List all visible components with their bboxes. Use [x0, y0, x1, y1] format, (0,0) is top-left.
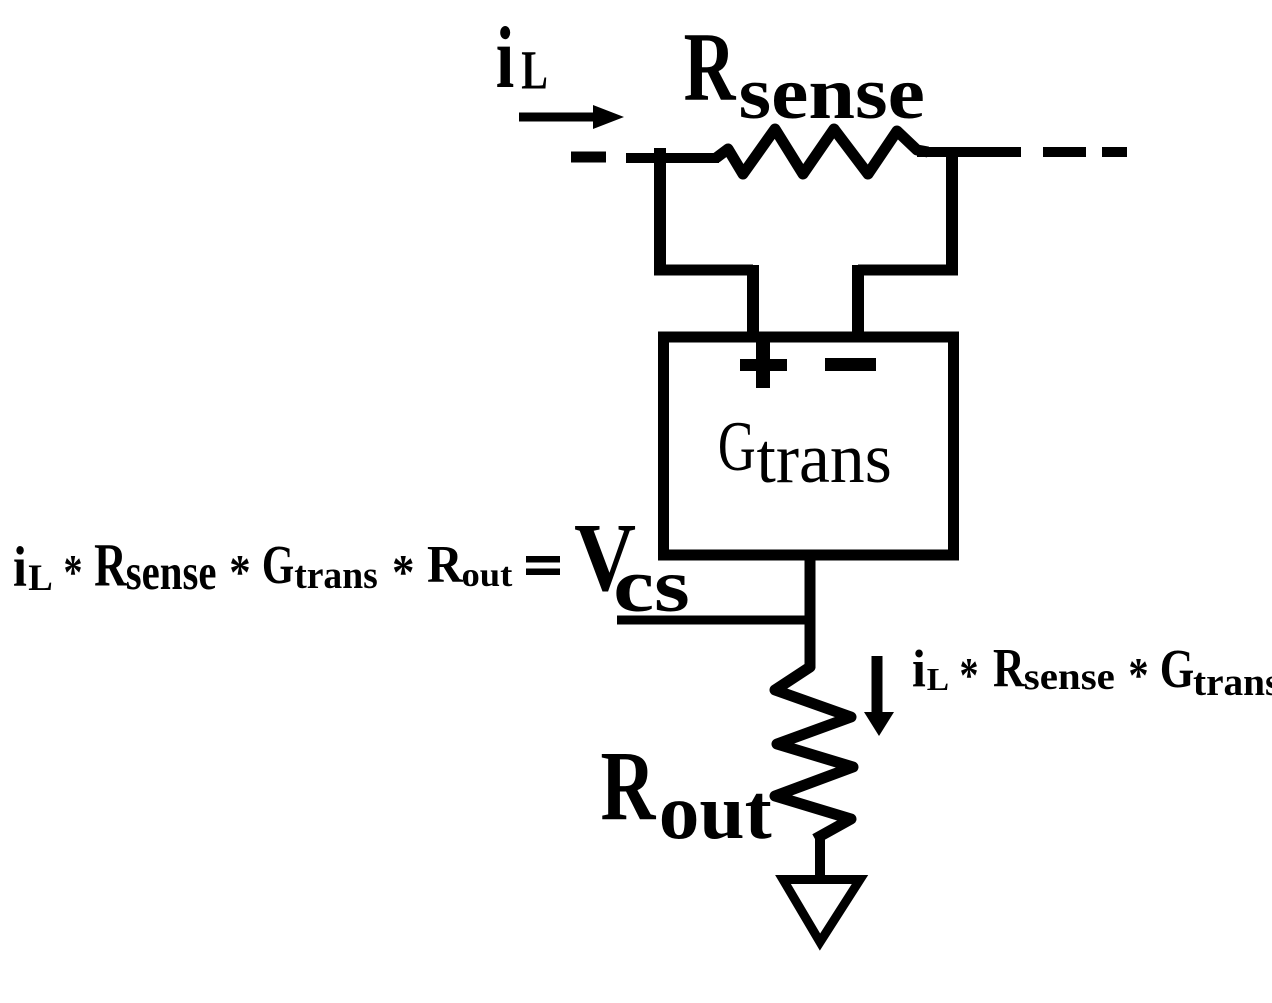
svg-text:R: R [427, 535, 464, 594]
wire output of G_trans down [805, 555, 816, 668]
label iL * Rsense * Gtrans (output current) [912, 637, 1272, 704]
svg-text:i: i [912, 640, 926, 699]
svg-text:R: R [993, 638, 1026, 699]
wire right branch down [858, 147, 958, 337]
svg-text:*: * [392, 545, 414, 600]
label G_trans [718, 409, 892, 499]
resistor R_out zigzag [775, 662, 853, 839]
svg-text:R: R [94, 531, 128, 599]
svg-text:trans: trans [757, 419, 892, 498]
equation iL * Rsense * Gtrans * Rout = Vcs [13, 531, 560, 600]
svg-text:out: out [659, 769, 772, 855]
svg-text:L: L [28, 558, 53, 599]
minus terminal [825, 358, 876, 371]
svg-text:R: R [684, 12, 737, 122]
svg-text:G: G [1160, 637, 1194, 699]
svg-text:sense: sense [739, 52, 925, 135]
wire dashed stub right [1043, 147, 1127, 157]
svg-text:R: R [601, 731, 657, 841]
label V_cs [574, 503, 690, 628]
op block U1 G_trans box [664, 337, 954, 555]
svg-text:trans: trans [1193, 660, 1272, 704]
svg-text:i: i [13, 535, 27, 599]
svg-text:L: L [521, 41, 548, 102]
svg-text:i: i [496, 8, 515, 106]
wire top-left horizontal [626, 153, 719, 163]
label R_sense [684, 12, 925, 135]
svg-text:sense: sense [1024, 655, 1115, 697]
wire top-right horizontal [917, 147, 1021, 157]
resistor R_sense zigzag [716, 129, 928, 174]
svg-text:*: * [229, 546, 250, 601]
svg-text:G: G [262, 533, 294, 595]
svg-text:cs: cs [613, 544, 690, 628]
current arrow iL [519, 105, 624, 129]
svg-text:trans: trans [294, 554, 378, 597]
wire dashed stub left [571, 152, 606, 163]
label R_out [601, 731, 773, 856]
plus terminal [740, 342, 787, 388]
svg-text:out: out [462, 556, 513, 593]
wire left branch down [654, 148, 753, 337]
svg-text:*: * [64, 543, 83, 599]
svg-text:*: * [960, 646, 979, 702]
current arrow down (output current) [864, 656, 894, 736]
wire below R_out [815, 839, 825, 877]
svg-text:*: * [1128, 646, 1148, 702]
node Vcs horizontal line [617, 616, 810, 625]
ground [783, 880, 860, 943]
svg-text:sense: sense [126, 544, 217, 600]
svg-text:G: G [718, 409, 756, 486]
label iL (inductor current) [496, 8, 548, 106]
svg-text:L: L [927, 662, 949, 697]
